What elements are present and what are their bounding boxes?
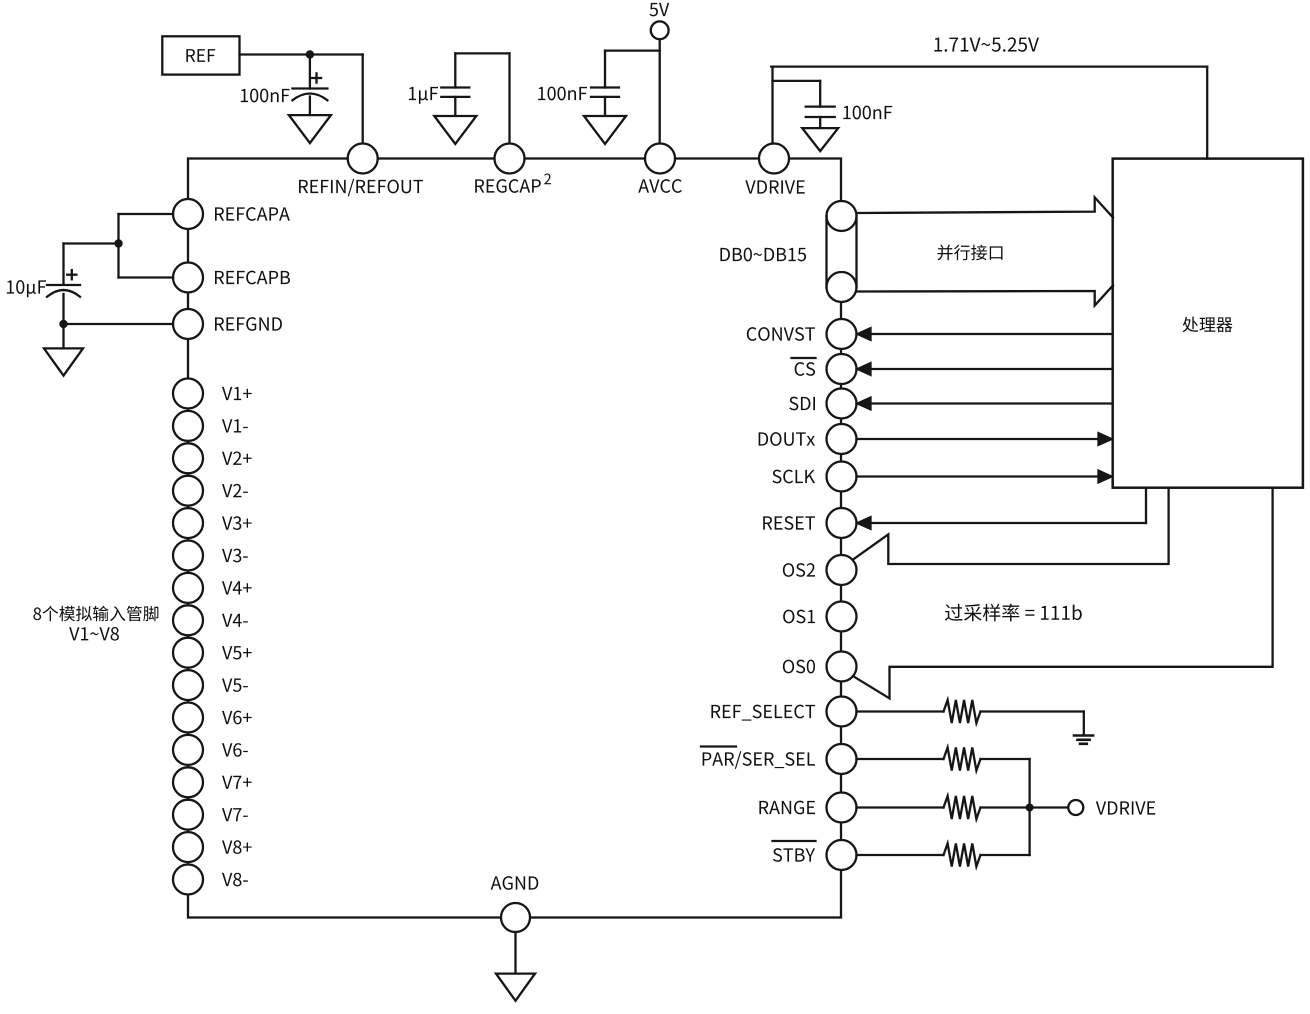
capacitor C2 label 1uF — [409, 87, 438, 104]
pin V7- — [173, 800, 248, 830]
ground symbol below C5 — [44, 348, 83, 375]
wire 1.71V~5.25V supply rail — [771, 67, 1207, 159]
pin CONVST — [747, 319, 857, 349]
pin V3+ — [173, 508, 252, 538]
REF source block U2 — [162, 36, 239, 74]
pin REF_SELECT — [711, 697, 856, 727]
pin V1+ — [173, 379, 252, 409]
pin REFIN/REFOUT — [299, 144, 423, 197]
capacitor C2 lower lead — [454, 97, 456, 116]
parallel bus block arrow — [857, 197, 1113, 305]
wire CS from processor — [858, 363, 1113, 375]
pin V8+ — [173, 832, 252, 862]
wire OS0 to processor — [854, 488, 1272, 699]
wire C4 branch — [773, 81, 821, 107]
wire DOUTx to processor — [857, 433, 1112, 445]
wire AGND to ground — [514, 932, 516, 974]
pin V5+ — [173, 638, 252, 668]
wire R4 to VDRIVE net — [981, 808, 1030, 856]
capacitor C5 10uF (polarized) — [47, 270, 80, 297]
ground symbol below C4 — [802, 128, 838, 151]
pin V4+ — [173, 573, 252, 603]
earth ground symbol — [1074, 736, 1093, 744]
wire R2 to VDRIVE net — [981, 759, 1030, 808]
pin V6+ — [173, 703, 252, 733]
capacitor C4 label 100nF — [843, 106, 892, 120]
capacitor C2 1uF — [441, 88, 469, 97]
wire REGCAP to C2 — [455, 53, 509, 143]
pin SCLK — [772, 462, 856, 492]
capacitor C1 100nF lead — [309, 55, 311, 89]
pin DB15 — [827, 272, 857, 302]
wire PAR/SER_SEL to R2 — [857, 758, 944, 760]
pin V8- — [173, 865, 248, 895]
bus gap (chip edge hidden between DB0 and DB15) — [839, 217, 843, 286]
pin V7+ — [173, 767, 252, 797]
REGCAP superscript 2 — [544, 173, 551, 184]
wire STBY to R4 — [857, 854, 944, 856]
label chuliqi (processor) — [1182, 317, 1232, 333]
ADC chip outline — [188, 159, 841, 918]
ground symbol below AGND — [496, 974, 535, 1001]
capacitor C1 100nF (polarized) — [292, 73, 327, 100]
wire RESET from processor — [858, 488, 1147, 529]
ground symbol below C2 — [434, 116, 476, 144]
capacitor C3 lower lead — [604, 97, 606, 116]
pin VDRIVE — [745, 144, 804, 194]
pin V3- — [173, 541, 248, 571]
wire REF output to REFIN/REFOUT — [240, 55, 363, 144]
wire VDRIVE riser — [771, 67, 773, 144]
label 8 analog input pins line1 — [33, 606, 158, 622]
pin STBY — [773, 840, 857, 870]
pin CS — [795, 354, 857, 384]
overline PAR — [701, 745, 736, 747]
pin PAR/SER_SEL — [703, 744, 857, 774]
processor box — [1113, 159, 1303, 488]
pin V2+ — [173, 443, 252, 473]
pin V1- — [173, 411, 248, 441]
pin V6- — [173, 735, 248, 765]
pin REGCAP — [475, 144, 541, 193]
node junction REF/C1 — [306, 50, 314, 58]
overline STBY — [773, 840, 816, 842]
label 1.71V~5.25V — [934, 37, 1039, 51]
wire REFCAPA/REFCAPB tie — [119, 214, 174, 278]
label 8 analog input pins line2 — [69, 627, 119, 641]
pin OS0 — [783, 652, 857, 682]
power terminal 5V — [649, 3, 669, 39]
pin REFCAPA — [173, 199, 290, 229]
capacitor C5 lower lead — [62, 294, 64, 324]
wire SCLK to processor — [857, 471, 1112, 483]
wire OS2 to processor — [853, 488, 1169, 564]
pin REFCAPB — [173, 263, 290, 293]
wire REF_SELECT to R1 — [857, 710, 944, 712]
overline CS — [792, 357, 816, 359]
wire junction to C5 — [64, 244, 119, 285]
label oversample rate = 111b — [945, 604, 1082, 622]
resistor R4 — [944, 844, 981, 867]
node junction C5 top — [114, 239, 122, 247]
wire R3 to VDRIVE terminal — [981, 806, 1069, 808]
node junction VDRIVE pull-ups — [1026, 804, 1034, 812]
capacitor C5 label 10uF — [7, 280, 46, 297]
pin AGND — [491, 876, 539, 932]
resistor R2 — [944, 748, 981, 771]
pin DB0 — [827, 201, 857, 231]
node junction C5/REFGND — [59, 320, 67, 328]
wire RANGE to R3 — [857, 806, 944, 808]
bus tangent lines — [827, 216, 857, 287]
label DB0~DB15 — [720, 248, 806, 262]
wire CONVST from processor — [858, 328, 1113, 340]
pin V5- — [173, 670, 248, 700]
pin AVCC — [638, 144, 682, 193]
pin RANGE — [759, 793, 856, 823]
wire R1 to ground — [981, 712, 1084, 735]
resistor R3 — [944, 796, 981, 819]
label bingxing jiekou (parallel interface) — [937, 245, 1002, 261]
capacitor C4 lower lead — [819, 117, 821, 128]
pin RESET — [763, 508, 856, 538]
terminal VDRIVE (pull-up supply) — [1068, 800, 1155, 815]
capacitor C3 100nF — [591, 88, 619, 97]
pin V4- — [173, 605, 248, 635]
wire SDI from processor — [858, 398, 1113, 410]
wire to ground — [62, 324, 64, 348]
wire 5V to AVCC — [659, 39, 661, 143]
capacitor C1 label 100nF — [241, 89, 290, 103]
wire C3 branch — [605, 51, 660, 88]
resistor R1 — [944, 700, 981, 723]
capacitor C1 lower lead — [309, 97, 311, 116]
pin OS2 — [783, 555, 857, 585]
ground symbol below C1 — [289, 115, 331, 143]
pin V2- — [173, 476, 248, 506]
capacitor C3 label 100nF — [538, 87, 587, 101]
capacitor C4 100nF — [806, 107, 835, 117]
wire C5 to REFGND — [64, 323, 174, 325]
pin REFGND — [173, 309, 282, 339]
pin DOUTx — [759, 424, 857, 454]
ground symbol below C3 — [584, 116, 626, 144]
pin SDI — [789, 389, 856, 419]
pin OS1 — [783, 602, 856, 632]
